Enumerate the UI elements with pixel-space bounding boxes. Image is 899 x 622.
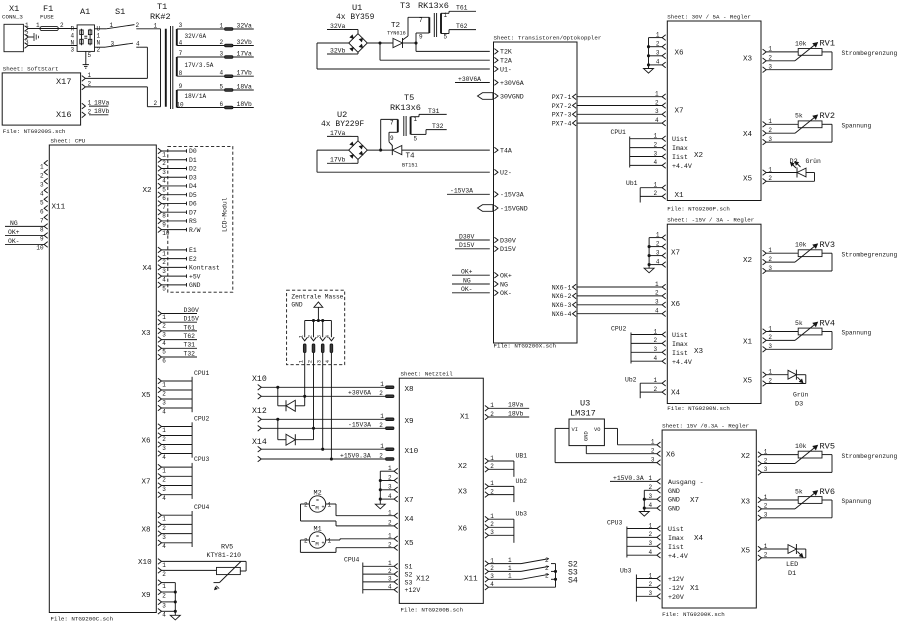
svg-text:+20V: +20V <box>668 594 684 601</box>
svg-text:18Vb: 18Vb <box>237 101 253 108</box>
svg-text:Iist: Iist <box>672 154 688 161</box>
svg-text:2: 2 <box>162 592 166 599</box>
net T31 <box>411 108 447 117</box>
svg-text:+15V0.3A: +15V0.3A <box>340 452 371 459</box>
svg-text:6: 6 <box>40 209 44 216</box>
svg-text:3: 3 <box>179 22 183 29</box>
svg-text:4: 4 <box>162 612 166 619</box>
svg-text:5k: 5k <box>795 113 803 120</box>
svg-text:2: 2 <box>220 39 224 46</box>
svg-text:X5: X5 <box>743 378 753 386</box>
svg-text:Sheet: 30V / 5A - Regler: Sheet: 30V / 5A - Regler <box>667 13 751 20</box>
svg-text:4: 4 <box>220 70 224 77</box>
svg-text:X5: X5 <box>142 392 152 400</box>
port X11 of Netzteil <box>464 557 494 590</box>
ports NX6-1..4 with wires to -15V regler <box>552 281 662 318</box>
svg-text:Spannung: Spannung <box>842 123 872 130</box>
svg-text:PX7-3: PX7-3 <box>552 112 572 119</box>
label U2 <box>321 110 364 129</box>
svg-text:T61: T61 <box>184 324 196 331</box>
svg-text:Sheet: CPU: Sheet: CPU <box>51 137 86 144</box>
svg-text:RK13x6: RK13x6 <box>418 1 449 11</box>
net OK- stub <box>452 286 490 293</box>
svg-text:GND: GND <box>189 282 201 289</box>
svg-text:+12V: +12V <box>668 576 684 583</box>
svg-text:Ub1: Ub1 <box>626 180 638 187</box>
svg-text:2: 2 <box>304 502 308 509</box>
svg-text:2: 2 <box>162 436 166 443</box>
svg-text:E1: E1 <box>189 247 197 254</box>
svg-text:1: 1 <box>508 565 512 572</box>
svg-text:=: = <box>316 534 319 540</box>
svg-text:10: 10 <box>36 245 44 252</box>
port X2 of -15V regler with potentiometer RV3 Strombegrenzung <box>743 240 897 274</box>
svg-text:1: 1 <box>36 22 40 29</box>
svg-text:X4: X4 <box>143 265 153 273</box>
connector X10 on CPU sheet <box>138 559 166 578</box>
svg-text:X4: X4 <box>405 516 415 524</box>
svg-text:File: NTG9200P.sch: File: NTG9200P.sch <box>667 206 730 213</box>
port X7 of Netzteil grounded <box>375 465 413 509</box>
wire T4A to X block <box>402 149 490 151</box>
svg-text:+: + <box>321 505 324 511</box>
svg-text:3: 3 <box>25 39 29 46</box>
wire M2.1 to X4.1 <box>326 504 394 516</box>
svg-text:X9: X9 <box>142 592 152 600</box>
connector X1 CONN_3 <box>2 4 29 52</box>
svg-text:T2K: T2K <box>500 49 512 56</box>
connector X14 output terminal <box>252 438 267 462</box>
svg-text:Strombegrenzung: Strombegrenzung <box>842 50 898 57</box>
svg-text:2: 2 <box>40 172 44 179</box>
net flag 30VGND <box>478 93 494 100</box>
svg-text:T1: T1 <box>157 2 167 12</box>
svg-text:RV1: RV1 <box>820 39 835 49</box>
svg-text:X2: X2 <box>741 453 751 461</box>
svg-text:T4A: T4A <box>500 147 512 154</box>
svg-text:X11: X11 <box>464 576 478 584</box>
svg-text:NX6-3: NX6-3 <box>552 302 572 309</box>
connector X5 CPU1 cable <box>142 370 210 416</box>
svg-text:S1: S1 <box>115 7 125 17</box>
svg-text:T2: T2 <box>391 22 401 30</box>
svg-text:17V/3.5A: 17V/3.5A <box>185 62 214 69</box>
svg-text:-15V3A: -15V3A <box>348 422 371 429</box>
svg-text:1: 1 <box>388 510 392 517</box>
svg-text:X5: X5 <box>405 540 415 548</box>
svg-text:3: 3 <box>162 268 166 275</box>
regulator U3 LM317 <box>569 399 604 446</box>
svg-text:D2: D2 <box>189 166 197 173</box>
svg-text:32Vb: 32Vb <box>330 47 346 54</box>
svg-text:1: 1 <box>328 502 332 509</box>
svg-text:U2: U2 <box>337 110 347 120</box>
svg-text:1: 1 <box>154 22 158 29</box>
svg-text:1: 1 <box>40 163 44 170</box>
wire U1- to X block <box>317 43 490 69</box>
svg-text:X7: X7 <box>405 497 414 505</box>
svg-text:Strombegrenzung: Strombegrenzung <box>842 251 898 258</box>
svg-text:X6: X6 <box>142 438 152 446</box>
svg-text:6: 6 <box>162 357 166 364</box>
net NG to X11.8 <box>5 220 44 227</box>
svg-text:A1: A1 <box>80 7 90 17</box>
svg-text:30VGND: 30VGND <box>500 93 524 100</box>
svg-text:T31: T31 <box>428 108 440 115</box>
svg-text:NX6-1: NX6-1 <box>552 284 572 291</box>
svg-text:3: 3 <box>162 331 166 338</box>
svg-text:U1: U1 <box>352 3 362 13</box>
svg-text:17Vb: 17Vb <box>237 70 253 77</box>
svg-text:X7: X7 <box>671 250 680 258</box>
wire M1.1 to X5.1 <box>326 539 394 540</box>
svg-text:17Va: 17Va <box>237 50 253 57</box>
svg-text:4: 4 <box>162 178 166 185</box>
port X8 of Netzteil <box>379 381 414 398</box>
svg-text:X4: X4 <box>671 390 681 398</box>
svg-text:Uist: Uist <box>668 526 684 533</box>
svg-text:1: 1 <box>97 33 101 40</box>
wire X1.3 to A1 <box>28 45 77 47</box>
svg-text:LCD-Modul: LCD-Modul <box>222 197 229 232</box>
svg-text:5: 5 <box>162 349 166 356</box>
svg-text:10k: 10k <box>795 242 807 249</box>
svg-text:5: 5 <box>40 199 44 206</box>
svg-text:OK-: OK- <box>461 286 473 293</box>
svg-text:10k: 10k <box>795 40 807 47</box>
wire X14.2 net +15V0.3A to X10.2 <box>261 452 385 460</box>
svg-text:Imax: Imax <box>672 341 688 348</box>
svg-text:+30V6A: +30V6A <box>500 80 524 87</box>
svg-text:D30V: D30V <box>500 237 516 244</box>
svg-text:-15VGND: -15VGND <box>500 205 528 212</box>
svg-text:2: 2 <box>162 477 166 484</box>
net 32Vb into bridge <box>327 47 358 54</box>
svg-text:X7: X7 <box>142 478 151 486</box>
line filter A1 <box>71 7 101 59</box>
svg-text:Sheet: Transistoren/Optokopple: Sheet: Transistoren/Optokoppler <box>494 34 602 41</box>
svg-text:X2: X2 <box>743 257 753 265</box>
svg-text:RK13x6: RK13x6 <box>390 103 421 113</box>
port X16 net 18Va 18Vb <box>56 100 110 121</box>
earth ground at X1.2 <box>28 33 38 41</box>
svg-text:X16: X16 <box>56 110 71 120</box>
svg-text:+5V: +5V <box>189 273 201 280</box>
svg-text:1: 1 <box>380 443 384 450</box>
svg-text:GND: GND <box>668 488 680 495</box>
wire X14.1 to Netzteil X10.1 <box>261 448 385 451</box>
ports PX7-1..4 with wires to 30V regler <box>552 91 662 128</box>
port X2 of Netzteil UB1 cable <box>458 453 527 477</box>
svg-text:U3: U3 <box>580 399 590 409</box>
svg-text:1: 1 <box>162 516 166 523</box>
svg-text:Grün: Grün <box>806 158 822 165</box>
svg-text:2: 2 <box>307 335 313 338</box>
svg-text:X3: X3 <box>741 499 751 507</box>
svg-text:2: 2 <box>162 525 166 532</box>
svg-text:X11: X11 <box>52 204 66 212</box>
motor M2 <box>304 490 332 513</box>
svg-text:+4.4V: +4.4V <box>668 553 688 560</box>
svg-text:32Vb: 32Vb <box>237 39 253 46</box>
svg-text:T62: T62 <box>184 333 196 340</box>
svg-text:U1-: U1- <box>500 66 512 73</box>
wire junction to T5 pin7 <box>381 119 398 150</box>
svg-text:X4: X4 <box>694 535 704 543</box>
svg-text:2: 2 <box>379 390 383 397</box>
label U1 <box>336 3 375 22</box>
svg-text:X8: X8 <box>142 527 152 535</box>
svg-text:X1: X1 <box>743 339 753 347</box>
svg-text:D30V: D30V <box>459 233 475 240</box>
net OK- to X11.10 <box>5 238 44 245</box>
svg-text:2: 2 <box>304 538 308 545</box>
wire U3 GND to X6.2 <box>586 446 657 454</box>
net 17Vb into bridge <box>327 157 358 164</box>
svg-text:9: 9 <box>40 236 44 243</box>
port X3 of 15V regler with potentiometer RV6 Spannung <box>741 487 871 521</box>
svg-text:Sheet: 15V /0.3A - Regler: Sheet: 15V /0.3A - Regler <box>662 422 749 429</box>
svg-text:2: 2 <box>388 520 392 527</box>
svg-text:4x BY229F: 4x BY229F <box>321 120 364 129</box>
svg-text:X1: X1 <box>460 414 470 422</box>
svg-text:RV2: RV2 <box>820 111 835 121</box>
svg-text:Strombegrenzung: Strombegrenzung <box>842 453 898 460</box>
svg-text:X3: X3 <box>694 348 704 356</box>
svg-text:3: 3 <box>111 41 115 48</box>
svg-text:5: 5 <box>88 52 92 59</box>
net 17Va into bridge <box>327 130 358 141</box>
earth ground at A1 pin5 <box>83 51 89 68</box>
svg-text:10k: 10k <box>795 443 807 450</box>
svg-text:X14: X14 <box>252 438 267 447</box>
svg-text:32Va: 32Va <box>330 23 346 30</box>
net OK+ to X11.9 <box>5 229 44 236</box>
wire U3 VO to X6.1 <box>604 428 657 444</box>
svg-text:CPU1: CPU1 <box>194 370 210 377</box>
svg-text:4: 4 <box>325 335 331 338</box>
connector X6 CPU2 cable <box>142 415 210 461</box>
LED D1 on port X5 of 15V regler <box>741 543 806 578</box>
port X2 of 30V regler with CPU1 cable <box>611 129 704 170</box>
svg-text:File: NTG9200C.sch: File: NTG9200C.sch <box>51 615 114 622</box>
svg-text:4: 4 <box>655 117 659 124</box>
svg-text:D15V: D15V <box>459 242 475 249</box>
svg-text:3: 3 <box>655 299 659 306</box>
connector X12 output terminal <box>252 407 267 431</box>
svg-text:7: 7 <box>162 204 166 211</box>
svg-text:D0: D0 <box>189 148 197 155</box>
port X1 of 30V regler with Ub1 cable <box>626 180 684 203</box>
transformer T1 primary and core <box>150 2 173 109</box>
svg-text:+30V6A: +30V6A <box>348 390 371 397</box>
svg-text:M1: M1 <box>314 526 322 534</box>
wire T5 pin9 to T4 gate <box>389 132 398 145</box>
svg-text:F1: F1 <box>43 4 53 14</box>
net NG stub <box>452 277 490 284</box>
svg-text:M: M <box>315 505 318 512</box>
svg-text:D1: D1 <box>788 570 796 578</box>
svg-text:OK+: OK+ <box>500 273 512 280</box>
svg-text:X2: X2 <box>694 152 704 160</box>
sheet Netzteil box <box>399 370 483 613</box>
connector X10 output terminal <box>252 375 267 399</box>
svg-text:3: 3 <box>162 445 166 452</box>
connector X7 CPU3 cable <box>142 456 210 502</box>
svg-text:X6: X6 <box>458 526 468 534</box>
svg-text:4: 4 <box>136 41 140 48</box>
svg-text:2: 2 <box>307 360 313 363</box>
svg-text:RV5: RV5 <box>221 544 233 552</box>
switch S1 <box>95 7 161 48</box>
transformer T5 RK13x6 <box>390 93 421 143</box>
svg-text:7: 7 <box>40 218 44 225</box>
svg-text:CONN_3: CONN_3 <box>2 14 23 21</box>
svg-text:4: 4 <box>162 454 166 461</box>
svg-text:X1: X1 <box>690 585 700 593</box>
svg-text:4: 4 <box>325 360 331 363</box>
svg-text:1: 1 <box>25 22 29 29</box>
svg-text:X9: X9 <box>405 418 415 426</box>
svg-text:1: 1 <box>388 533 392 540</box>
svg-text:Spannung: Spannung <box>842 498 872 505</box>
wire X10.1 to Netzteil X8.1 <box>261 386 385 389</box>
wire GND to -15V3A rail <box>313 365 315 429</box>
svg-text:D7: D7 <box>189 209 197 216</box>
svg-text:RS: RS <box>189 218 197 225</box>
svg-text:1: 1 <box>162 427 166 434</box>
svg-text:X2: X2 <box>458 463 468 471</box>
port X6 of -15V regler <box>662 284 680 316</box>
svg-text:Spannung: Spannung <box>842 330 872 337</box>
wire M2.2 to X4.2 <box>301 504 395 526</box>
connector X3 on CPU sheet nets D30V D15V T61 T62 T31 T32 <box>142 307 200 365</box>
svg-text:X3: X3 <box>142 330 152 338</box>
svg-text:3: 3 <box>162 169 166 176</box>
svg-text:17Va: 17Va <box>330 130 346 137</box>
svg-text:NX6-4: NX6-4 <box>552 311 572 318</box>
wire X12.2 net -15V3A to X9.2 <box>261 422 385 430</box>
wire U2+ to T4 junction <box>367 149 392 152</box>
svg-text:3: 3 <box>162 486 166 493</box>
svg-text:18Vb: 18Vb <box>94 108 110 115</box>
svg-text:N: N <box>97 40 101 47</box>
GND net flag up arrow <box>314 302 323 321</box>
wire T2 gate to T3 pin7 <box>403 17 430 40</box>
svg-text:2: 2 <box>162 259 166 266</box>
svg-text:File: NTG9200B.sch: File: NTG9200B.sch <box>401 606 464 613</box>
svg-text:E2: E2 <box>189 256 197 263</box>
svg-text:1: 1 <box>299 335 305 338</box>
svg-text:Uist: Uist <box>672 332 688 339</box>
connector X9 on CPU sheet grounded <box>142 580 181 620</box>
svg-text:OK+: OK+ <box>461 269 473 276</box>
svg-text:2: 2 <box>154 100 158 107</box>
svg-text:5: 5 <box>162 285 166 292</box>
svg-text:Ub3: Ub3 <box>516 511 528 518</box>
svg-text:+: + <box>321 541 324 547</box>
dashed box Zentrale Masse <box>287 290 345 365</box>
svg-text:RK#2: RK#2 <box>150 12 171 22</box>
svg-text:T5: T5 <box>404 93 414 103</box>
svg-text:X3: X3 <box>458 489 468 497</box>
svg-text:X12: X12 <box>252 407 267 416</box>
svg-text:GND: GND <box>291 302 302 309</box>
svg-text:3: 3 <box>655 108 659 115</box>
wire GND to +15V0.3A rail <box>330 365 332 459</box>
svg-text:Ub2: Ub2 <box>516 478 528 485</box>
svg-text:32V/6A: 32V/6A <box>185 33 207 40</box>
svg-text:GND: GND <box>584 431 590 441</box>
svg-text:X7: X7 <box>675 107 684 115</box>
net OK+ stub <box>452 269 490 276</box>
svg-text:CPU3: CPU3 <box>607 520 623 527</box>
connector X8 CPU4 cable <box>142 504 210 550</box>
svg-text:X5: X5 <box>741 548 751 556</box>
svg-text:PX7-4: PX7-4 <box>552 120 572 127</box>
svg-text:7: 7 <box>390 120 394 127</box>
LED D2 Gruen on port X5 of 30V regler <box>743 158 821 184</box>
wire X17.2 to T1.2 <box>86 87 161 107</box>
svg-text:1: 1 <box>162 583 166 590</box>
svg-text:3: 3 <box>162 399 166 406</box>
connector X11 on CPU sheet <box>36 160 65 251</box>
svg-text:Grün: Grün <box>793 392 809 399</box>
svg-text:2: 2 <box>545 557 549 564</box>
svg-text:PX7-1: PX7-1 <box>552 94 572 101</box>
svg-text:4: 4 <box>40 190 44 197</box>
svg-text:2: 2 <box>545 573 549 580</box>
svg-text:X7: X7 <box>690 497 699 505</box>
svg-text:3: 3 <box>317 360 323 363</box>
svg-text:CPU4: CPU4 <box>344 557 360 564</box>
svg-text:X8: X8 <box>405 386 415 394</box>
svg-text:D4: D4 <box>189 183 197 190</box>
svg-text:6: 6 <box>162 195 166 202</box>
svg-text:GND: GND <box>668 497 680 504</box>
svg-text:2: 2 <box>379 453 383 460</box>
svg-text:9: 9 <box>390 135 394 142</box>
motor M1 <box>304 526 332 549</box>
svg-text:18Vb: 18Vb <box>508 410 524 417</box>
svg-text:3: 3 <box>71 47 75 54</box>
svg-text:X10: X10 <box>252 375 267 384</box>
svg-text:T4: T4 <box>406 153 416 161</box>
svg-text:5: 5 <box>444 34 448 41</box>
wire GND to X14.1 rail <box>322 365 324 450</box>
svg-text:18V/1A: 18V/1A <box>185 93 207 100</box>
svg-text:6: 6 <box>220 101 224 108</box>
diode across X10 <box>278 387 305 411</box>
port X1 of 15V regler with Ub3 cable <box>620 568 700 602</box>
svg-text:2: 2 <box>388 542 392 549</box>
fuse F1 <box>36 4 64 31</box>
svg-text:2: 2 <box>655 290 659 297</box>
port X4 of 15V regler with CPU3 cable <box>607 520 704 560</box>
svg-text:Kontrast: Kontrast <box>189 265 220 272</box>
svg-text:1: 1 <box>655 281 659 288</box>
svg-text:4: 4 <box>162 543 166 550</box>
port X7 of -15V regler grounded <box>644 231 680 272</box>
svg-text:GND: GND <box>668 506 680 513</box>
wire F1 to A1 <box>58 28 77 30</box>
svg-text:RV6: RV6 <box>820 487 835 497</box>
svg-text:5: 5 <box>220 83 224 90</box>
wire GND to +30V6A rail <box>304 365 306 397</box>
central ground connector pairs <box>299 319 335 365</box>
svg-text:NG: NG <box>463 277 471 284</box>
svg-text:=: = <box>316 498 319 504</box>
